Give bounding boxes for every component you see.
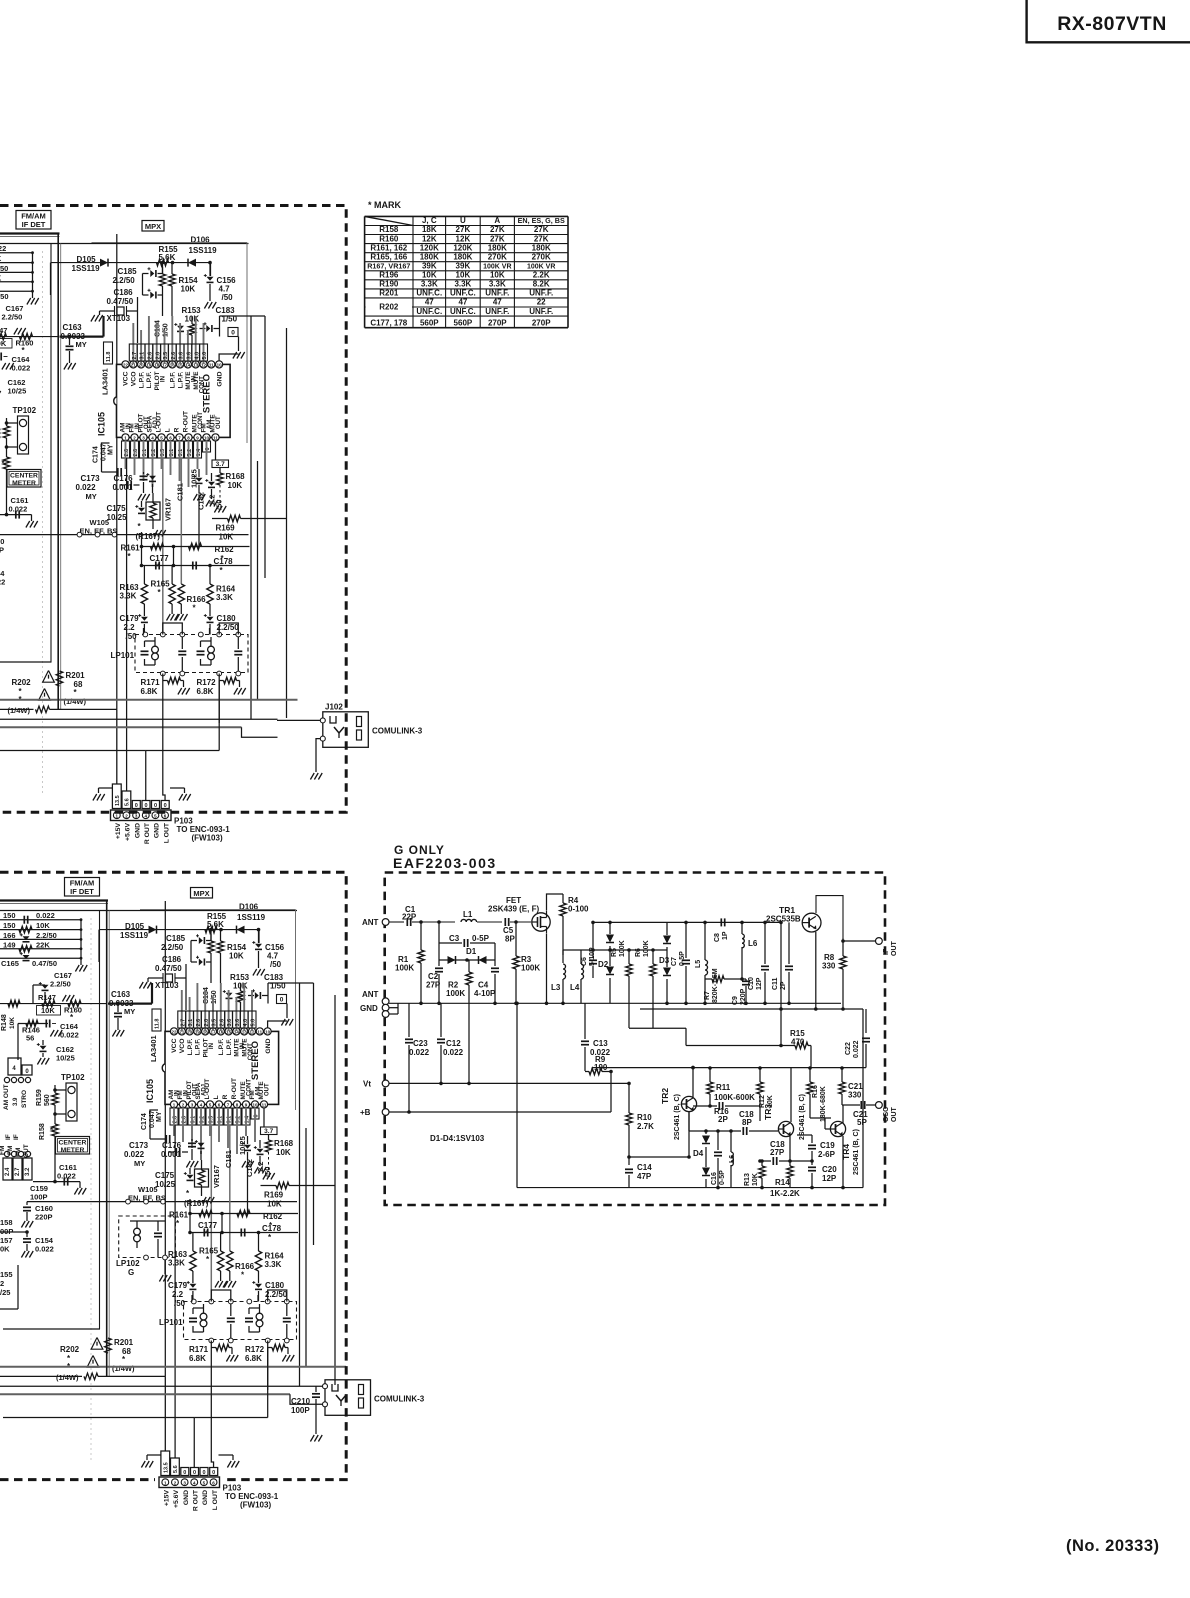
svg-text:UNF.C.: UNF.C. [416,307,442,316]
svg-text:L3: L3 [551,983,561,992]
wire - top feed [592,1067,866,1069]
svg-text:A: A [494,216,500,225]
resistor R2 100K [466,972,472,985]
svg-text:D3: D3 [659,956,670,965]
svg-text:ANT: ANT [362,990,379,999]
svg-text:100K VR: 100K VR [483,264,511,271]
svg-text:10K: 10K [490,271,505,280]
svg-text:0-5P: 0-5P [719,1170,726,1185]
svg-text:L1: L1 [463,910,473,919]
svg-text:27K: 27K [490,234,505,243]
wire - big left vertical [516,1020,518,1188]
transistor TR4 2SC461(B,C) [830,1121,845,1136]
svg-text:47P: 47P [637,1172,652,1181]
svg-text:22P: 22P [402,913,417,922]
resistor R3 100K [513,956,519,969]
svg-text:330: 330 [822,962,836,971]
svg-text:39K: 39K [422,262,437,271]
connector J102 (bottom) [325,1380,371,1416]
svg-text:GND: GND [360,1004,378,1013]
svg-text:UNF.C.: UNF.C. [450,289,476,298]
resistor R1 100K [418,950,424,963]
svg-text:L4: L4 [570,983,580,992]
svg-text:R167, VR167: R167, VR167 [367,262,410,271]
svg-text:27K: 27K [490,225,505,234]
FM/AM IF-DET + MPX block (bottom copy, G version) [0,878,346,1512]
svg-text:270P: 270P [532,318,551,327]
table header diagonal [365,216,413,225]
svg-text:270K: 270K [488,252,507,261]
svg-text:D4: D4 [693,1149,704,1158]
svg-text:C9: C9 [732,996,739,1005]
svg-text:R16: R16 [812,1085,819,1098]
resistor R11 100K-600K [707,1082,713,1094]
svg-text:C10: C10 [748,977,755,990]
terminal OSC OUT [876,1102,883,1109]
svg-text:UNF.F.: UNF.F. [529,289,553,298]
FM/AM IF-DET + MPX block (top copy) [0,211,298,845]
svg-text:2SC461 (B, C): 2SC461 (B, C) [853,1129,860,1175]
diode D4 pair [705,1131,707,1134]
svg-text:180K: 180K [532,243,551,252]
wire - feedback [780,922,782,1045]
svg-text:12P: 12P [756,977,763,990]
svg-text:EN, ES, G, BS: EN, ES, G, BS [518,216,565,225]
title box RX-807VTN [1027,0,1190,42]
svg-text:(No. 20333): (No. 20333) [1066,1537,1160,1555]
svg-text:22: 22 [537,298,546,307]
wire - top tank rail [563,949,667,951]
svg-text:D1: D1 [466,947,477,956]
svg-text:0.022: 0.022 [409,1048,430,1057]
svg-text:C177, 178: C177, 178 [370,318,407,327]
svg-text:10K: 10K [767,1095,774,1108]
svg-text:4-10P: 4-10P [474,989,496,998]
svg-text:UNF.F.: UNF.F. [529,307,553,316]
svg-text:L6: L6 [748,939,758,948]
svg-text:C3: C3 [449,934,460,943]
svg-text:C13: C13 [593,1039,608,1048]
ground - J102 (top) [310,773,314,780]
svg-text:2SK439 (E, F): 2SK439 (E, F) [488,905,539,914]
svg-text:2SC535B: 2SC535B [766,915,801,924]
resistor C21 330 [839,1082,845,1094]
svg-text:R161, 162: R161, 162 [370,243,407,252]
svg-text:C6: C6 [581,957,588,966]
svg-text:C210: C210 [291,1397,311,1406]
svg-text:180K-680K: 180K-680K [820,1086,827,1122]
svg-text:R11: R11 [716,1083,731,1092]
svg-text:UNF.C.: UNF.C. [450,307,476,316]
svg-text:R7: R7 [704,991,711,1000]
svg-text:180K: 180K [453,252,472,261]
svg-text:0-100: 0-100 [568,905,589,914]
svg-text:C14: C14 [637,1163,652,1172]
svg-text:G: G [128,1268,134,1277]
wire - TR2 emitter/base [688,1112,690,1131]
svg-text:100P: 100P [291,1406,310,1415]
svg-text:27K: 27K [534,234,549,243]
svg-text:L5: L5 [695,960,702,968]
svg-text:D1-D4:1SV103: D1-D4:1SV103 [430,1134,485,1143]
ground - C210 [310,1435,314,1442]
svg-text:C7: C7 [671,957,678,966]
svg-text:180K: 180K [420,252,439,261]
wire - antenna input [389,921,404,923]
svg-text:12K: 12K [456,234,471,243]
svg-text:C20: C20 [822,1165,837,1174]
wire - lower gnd rail [640,1008,863,1010]
wire - RF node [556,921,610,923]
svg-text:R14: R14 [775,1178,790,1187]
svg-text:J102: J102 [325,703,343,712]
svg-text:UNF.F.: UNF.F. [485,307,509,316]
svg-text:COMULINK-3: COMULINK-3 [372,727,423,736]
terminal GND 3 [382,1004,389,1011]
svg-text:OSC: OSC [883,1107,890,1122]
svg-text:C23: C23 [413,1039,428,1048]
svg-text:12K: 12K [422,234,437,243]
svg-text:8.2K: 8.2K [533,280,550,289]
terminal ANT 1 [382,919,389,926]
svg-text:2SC461 (B, C): 2SC461 (B, C) [799,1094,806,1140]
terminal +B 6 [382,1109,389,1116]
svg-text:U: U [460,216,466,225]
resistor R12 10K [757,1082,763,1094]
inductor L3 [563,964,566,969]
wire - TR1 emitter [815,932,817,1009]
wire - TR3 collector [790,1068,792,1122]
terminal ANT 2 [382,998,389,1005]
resistor R8 330 [840,956,846,969]
wire - TR3 base [771,1130,778,1132]
wire - Vt to R10 [628,1083,630,1113]
dashed border - G box [385,873,885,1206]
svg-text:1P: 1P [722,931,729,940]
svg-text:R5: R5 [611,948,618,957]
terminal Vt 5 [382,1080,389,1087]
wire - FET source [546,934,548,1004]
svg-text:3.3K: 3.3K [489,280,506,289]
svg-text:R190: R190 [379,280,399,289]
svg-text:R158: R158 [379,225,399,234]
svg-text:C8: C8 [714,933,721,942]
svg-text:UNF.C.: UNF.C. [416,289,442,298]
svg-text:IF: IF [883,948,890,955]
wire - +B rail [389,1111,611,1113]
svg-text:2-6P: 2-6P [818,1150,836,1159]
svg-text:18K: 18K [422,225,437,234]
svg-text:100K VR: 100K VR [527,264,555,271]
wire - FET drain [547,894,564,911]
svg-text:120K: 120K [453,243,472,252]
svg-text:330: 330 [848,1091,862,1100]
capacitor C8 1P [720,918,722,926]
svg-text:C11: C11 [772,977,779,990]
svg-text:OUT: OUT [891,941,898,957]
svg-text:0.022: 0.022 [443,1048,464,1057]
svg-text:3.3K: 3.3K [421,280,438,289]
svg-text:2.7K: 2.7K [637,1122,654,1131]
svg-text:C12: C12 [446,1039,461,1048]
svg-text:270P: 270P [488,318,507,327]
svg-text:R201: R201 [379,289,399,298]
jack symbol (bottom J102) [332,1384,338,1391]
svg-text:10K: 10K [752,1173,759,1186]
svg-text:RX-807VTN: RX-807VTN [1057,13,1167,35]
svg-text:R202: R202 [379,303,399,312]
svg-text:OUT: OUT [891,1107,898,1123]
svg-text:39K: 39K [456,262,471,271]
svg-text:27K: 27K [456,225,471,234]
resistor R4 0-100 [560,903,566,916]
dashed border - top block [0,206,346,813]
dashed border - bottom block [0,872,346,1479]
svg-text:TR1: TR1 [779,905,795,915]
svg-text:100K-600K: 100K-600K [714,1093,755,1102]
wire - Vt rail [389,1082,629,1084]
svg-text:100K: 100K [446,989,465,998]
resistor R10 2.7K [626,1113,632,1125]
svg-text:+B: +B [360,1108,371,1117]
svg-text:270K: 270K [532,252,551,261]
svg-text:R10: R10 [637,1113,652,1122]
svg-text:* MARK: * MARK [368,200,401,210]
svg-text:47: 47 [458,298,467,307]
svg-text:2SC461 (B, C): 2SC461 (B, C) [674,1094,681,1140]
jack symbol (top J102) [330,716,336,723]
wire - TR1 collector to IF OUT [816,896,843,938]
resistor R16 180K-680K [807,1082,813,1094]
svg-text:LP102: LP102 [116,1259,140,1268]
svg-text:C16: C16 [711,1172,718,1185]
svg-text:TR2: TR2 [660,1088,670,1104]
svg-text:3.3K: 3.3K [454,280,471,289]
svg-text:2P: 2P [718,1115,728,1124]
wire - TR4 base [825,1128,830,1130]
svg-text:R160: R160 [379,234,399,243]
svg-text:R196: R196 [379,271,399,280]
table body rows [366,306,412,308]
svg-text:1K-2.2K: 1K-2.2K [770,1189,800,1198]
svg-text:47: 47 [493,298,502,307]
wire - TR4 base net [797,1117,831,1119]
terminal 4 [382,1011,389,1018]
wire - TR2 collector [692,1068,694,1097]
svg-text:R165, 166: R165, 166 [370,252,407,261]
svg-text:12P: 12P [822,1174,837,1183]
svg-text:COMULINK-3: COMULINK-3 [374,1395,425,1404]
svg-text:820K-1.5M: 820K-1.5M [712,968,719,1003]
svg-text:0.022: 0.022 [853,1040,860,1058]
wire - TR3 emitter [789,1136,791,1161]
svg-text:27K: 27K [534,225,549,234]
svg-text:R6: R6 [635,948,642,957]
svg-text:J, C: J, C [422,216,437,225]
svg-text:10K: 10K [422,271,437,280]
table - component values per destination [365,215,568,217]
svg-text:100K: 100K [619,940,626,957]
svg-text:180K: 180K [488,243,507,252]
svg-text:8P: 8P [505,935,515,944]
svg-text:ANT: ANT [362,918,379,927]
svg-text:0-5P: 0-5P [472,934,490,943]
svg-text:R13: R13 [744,1173,751,1186]
svg-text:100K: 100K [395,964,414,973]
svg-text:EAF2203-003: EAF2203-003 [393,855,497,871]
wire - TR4 collector to OSC OUT [842,1105,844,1123]
svg-text:10K: 10K [456,271,471,280]
svg-text:8P: 8P [742,1118,752,1127]
wire - bottom rail G box [517,1187,863,1189]
svg-text:Vt: Vt [363,1080,371,1089]
svg-text:C22: C22 [845,1042,852,1055]
inductor L4 [581,964,584,969]
wire - osc node [610,921,667,923]
wire - J102 ground (top) [316,739,320,772]
svg-text:UNF.F.: UNF.F. [485,289,509,298]
ground - LP102 [159,1275,163,1282]
svg-text:100K: 100K [643,940,650,957]
svg-text:2.2K: 2.2K [533,271,550,280]
connector J102 (top) [323,712,369,748]
svg-text:120K: 120K [420,243,439,252]
wire - IF OUT [843,940,876,942]
wire - to J102 (top) [277,719,320,721]
svg-text:5P: 5P [857,1118,867,1127]
LP102 filter box (G only) [119,1216,176,1258]
wire - ground rail [389,1002,841,1004]
resistor R14 1K-2.2K [787,1166,793,1178]
wire - C13 node [584,1003,586,1039]
wire - TR4 emitter [842,1136,844,1188]
svg-text:47: 47 [425,298,434,307]
diode D2 [609,924,611,934]
svg-text:C19: C19 [820,1141,835,1150]
svg-text:100K: 100K [521,964,540,973]
LP102 coil+cap [134,1228,141,1235]
svg-text:560P: 560P [454,318,473,327]
terminal IF OUT [876,938,883,945]
svg-text:560P: 560P [420,318,439,327]
svg-text:27P: 27P [770,1148,785,1157]
wire - R9 to +B [610,1072,612,1113]
